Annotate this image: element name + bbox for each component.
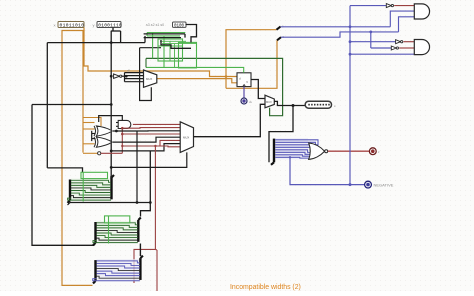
- splitter cluster: pin Y & S buses to green wires: [146, 33, 197, 68]
- wire bus to box1 notch: [47, 168, 82, 172]
- junction blue: [349, 183, 352, 186]
- splitter S1: [277, 27, 281, 30]
- junction: [292, 104, 295, 107]
- wire MUX2 select: [111, 152, 187, 167]
- wire orange stub XOR1 lower input: [83, 128, 95, 130]
- junction: [110, 150, 113, 153]
- wire red NOT1 to AND1: [394, 5, 414, 7]
- wire MUX1 select loop: [140, 48, 152, 101]
- multiplexer MUX1: [144, 70, 157, 87]
- wire blue AND1 in2: [390, 11, 414, 27]
- register/flip-flop U3: [237, 73, 251, 87]
- wire red MUX2 in7: [155, 145, 180, 148]
- junction blue: [349, 53, 352, 56]
- wire blue to NOT3: [370, 32, 372, 48]
- wire bus horizontal y=104.5: [32, 104, 111, 106]
- wire bus box1 output bottom: [68, 203, 71, 206]
- NOT gate N2: [396, 40, 403, 44]
- wire blue NOT3 input: [371, 47, 392, 49]
- junction: [115, 130, 118, 133]
- output pin S (8-bit): [305, 101, 331, 108]
- wire red vertical spine: [121, 128, 123, 153]
- junction: [110, 166, 113, 169]
- wire vertical joining MUX1 inputs: [124, 73, 126, 82]
- input pin X (8-bit): [58, 22, 84, 29]
- junction: [110, 41, 113, 44]
- svg-text:NEGATIVE: NEGATIVE: [374, 182, 394, 187]
- wire bus into box2 splitter B: [141, 151, 151, 217]
- junction blue: [349, 25, 352, 28]
- output pin Z: [369, 148, 376, 155]
- wire blue AND1 in3: [399, 17, 415, 32]
- input pin Y (8-bit): [97, 22, 122, 29]
- junction red: [121, 133, 124, 136]
- svg-text:MUX: MUX: [146, 77, 152, 81]
- junction red: [154, 145, 156, 147]
- wire loop above AND: [99, 116, 123, 122]
- wire XOR1 out to MUX2 in2: [113, 130, 180, 132]
- wire MUX2 output to MUX3 in2: [194, 104, 266, 136]
- wire dark green select chain: [146, 58, 283, 115]
- wire orange branch to register input D: [84, 31, 237, 77]
- junction: [149, 201, 152, 204]
- splitter box4 (indigo fan into NOR): [271, 138, 308, 165]
- wire orange bus from pin X down-left to splitter of box3: [62, 28, 93, 286]
- NOT gate N3: [391, 46, 398, 50]
- svg-text:0100: 0100: [174, 24, 185, 28]
- inverter bubble on orange line: [98, 152, 101, 155]
- wire orange vertical to xor cluster: [82, 31, 84, 153]
- wire orange stub XOR1 input: [83, 122, 95, 124]
- wire red to box3 area: [134, 249, 155, 283]
- wire blue AND2 in3: [350, 53, 414, 55]
- wire register output to MUX3 in1: [251, 80, 265, 99]
- wire red MUX2 in3: [122, 133, 180, 135]
- junction indigo: [289, 156, 291, 158]
- wire to NEGATIVE pin: [290, 157, 364, 184]
- wire NOT output: [122, 75, 127, 77]
- junction blue: [349, 40, 352, 43]
- junction: [110, 103, 113, 106]
- wire bus vertical x=111 to box1: [110, 31, 112, 176]
- input pin s3s2s1s0 (4-bit): [173, 22, 187, 28]
- junction red: [121, 145, 123, 147]
- junction: [125, 75, 128, 78]
- wire red exits bottom: [156, 250, 158, 291]
- XOR gate G1: [94, 126, 112, 136]
- wire black vertical x=137: [136, 131, 138, 203]
- output pin NEGATIVE: [365, 181, 372, 188]
- wire bus box1 to cluster: [110, 176, 112, 179]
- multiplexer MUX3: [265, 95, 274, 108]
- wire red NOT2 to AND2: [404, 41, 415, 43]
- NOR gate G4: [309, 143, 328, 159]
- wire orange to XOR1 top input: [83, 118, 101, 127]
- junction: [136, 201, 139, 204]
- wire bus horizontal y=42.6: [47, 42, 145, 44]
- wire bracket at XOR inputs: [91, 131, 93, 141]
- MUX1 input wires d0-d3: [125, 72, 144, 74]
- black bus segments in cluster: [144, 33, 185, 35]
- wire violet register to pin: [243, 87, 245, 98]
- wire AND input stub: [116, 122, 118, 124]
- svg-text:ck: ck: [249, 100, 253, 104]
- AND gate A1: [414, 4, 429, 19]
- wire red from bubble: [101, 152, 123, 154]
- NOT gate N1: [386, 4, 393, 8]
- wire bus to box2 splitter: [32, 105, 94, 246]
- splitter box3 (indigo staircase): [93, 256, 143, 284]
- wire bus from pin Y: [112, 28, 114, 32]
- wire orange under register to splitter S2: [226, 40, 277, 88]
- wire XOR2 out to MUX2 in4: [113, 137, 180, 142]
- wire orange stub XOR2 input: [83, 143, 95, 145]
- wire bus box2B to box3B vertical: [139, 244, 141, 257]
- wire blue S2 out: [281, 32, 399, 37]
- svg-text:y: y: [93, 23, 95, 28]
- junction blue: [369, 31, 372, 34]
- wire blue to NOT1: [350, 5, 386, 7]
- wire bus from pin s3-s0: [186, 25, 197, 43]
- wire red MUX2 in5: [122, 140, 180, 146]
- AND gate G3: [118, 120, 131, 128]
- svg-text:01001110: 01001110: [98, 22, 122, 28]
- wire red NOT3 to AND2: [399, 47, 414, 49]
- svg-text:01011010: 01011010: [60, 22, 85, 28]
- wire output bus down to box4 splitter: [269, 106, 293, 163]
- wire orange short vertical: [225, 77, 227, 89]
- splitter box2 (green staircase): [93, 216, 141, 245]
- wire black MUX2 in6: [111, 144, 180, 151]
- wire blue to NOT2: [350, 41, 395, 43]
- splitter S2: [277, 37, 281, 40]
- wire orange MUX1 output to register: [157, 79, 237, 83]
- NOT gate U2 (left of MUX1): [114, 74, 122, 78]
- multiplexer MUX2: [180, 122, 193, 153]
- wire blue long vertical V1: [349, 6, 351, 185]
- wire MUX3 output: [274, 101, 306, 105]
- wire orange riser to splitter S1: [226, 30, 277, 77]
- wire red AND out to MUX2 in0: [133, 123, 180, 125]
- svg-text:Incompatible widths (2): Incompatible widths (2): [230, 284, 301, 291]
- svg-text:MUX: MUX: [266, 100, 272, 104]
- AND gate A2: [414, 40, 429, 55]
- wire bus y=47.7: [140, 47, 161, 49]
- wire bus riser into splitter cluster: [144, 36, 146, 43]
- svg-text:x: x: [54, 23, 56, 28]
- wire red MUX2 in1: [122, 127, 180, 130]
- wire blue S1 out: [281, 26, 391, 28]
- junction orange: [225, 75, 228, 78]
- junction red: [121, 127, 124, 130]
- wire green into register top: [146, 67, 244, 72]
- svg-text:MUX: MUX: [183, 135, 189, 139]
- junction at NOT input: [110, 75, 113, 78]
- XOR gate G2: [94, 137, 112, 147]
- wire bus left vertical x=47: [46, 43, 48, 168]
- wire orange to inverter bubble: [83, 152, 98, 154]
- wire AND input stub: [116, 125, 118, 127]
- svg-text:s3 s2 s1 s0: s3 s2 s1 s0: [146, 23, 164, 27]
- wire red long vertical x=155: [154, 146, 156, 249]
- wire red NOR output to Z pin: [328, 150, 369, 152]
- splitter box1 (green staircase): [68, 172, 115, 203]
